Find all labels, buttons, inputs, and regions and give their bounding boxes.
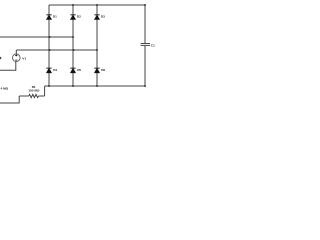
diode D6 bbox=[94, 68, 99, 73]
wire net at y=37 bbox=[0, 36, 73, 38]
junction net50 B bbox=[73, 49, 75, 51]
svg-text:D4: D4 bbox=[53, 68, 57, 72]
resistor R1 label bbox=[28, 85, 40, 92]
wire column B (x=73) bbox=[72, 5, 74, 86]
junction top rail B bbox=[72, 4, 74, 6]
svg-text:D1: D1 bbox=[53, 15, 57, 19]
svg-text:D5: D5 bbox=[77, 68, 81, 72]
svg-text:D2: D2 bbox=[77, 15, 81, 19]
wire left return bbox=[0, 96, 19, 103]
junction bottom rail B bbox=[72, 85, 74, 87]
wire column C (x=97) bbox=[96, 5, 98, 86]
clipped label fragment near V1 at left edge bbox=[0, 57, 1, 59]
wire rail to resistor bbox=[44, 86, 46, 96]
wire column A (x=49) bbox=[48, 5, 50, 86]
wire V1 bottom lead bbox=[0, 62, 16, 71]
diode D4 bbox=[46, 68, 51, 73]
wire top rail bbox=[49, 4, 145, 6]
junction net50 A bbox=[49, 49, 51, 51]
svg-text:100 MΩ: 100 MΩ bbox=[28, 88, 40, 92]
svg-text:D3: D3 bbox=[101, 15, 105, 19]
voltage source V1 bbox=[12, 54, 20, 62]
svg-text:C1: C1 bbox=[151, 43, 155, 47]
junction net37 A bbox=[49, 36, 51, 38]
diode D1 bbox=[46, 15, 51, 20]
wire capacitor branch (x=145) bbox=[144, 5, 146, 86]
wire net at y=50 bbox=[16, 49, 97, 51]
junction top rail cap bbox=[144, 4, 146, 6]
wire resistor right lead bbox=[39, 95, 45, 97]
capacitor C1 bbox=[141, 44, 150, 46]
wire V1 top lead bbox=[15, 50, 17, 54]
diode D2 bbox=[70, 15, 75, 20]
junction bottom rail A bbox=[48, 85, 50, 87]
resistor R1 bbox=[29, 94, 39, 97]
junction bottom rail C bbox=[96, 85, 98, 87]
svg-text:V1: V1 bbox=[22, 56, 26, 60]
junction net50 C bbox=[96, 49, 98, 51]
junction top rail C bbox=[96, 4, 98, 6]
diode D5 bbox=[70, 68, 75, 73]
wire resistor left lead bbox=[19, 95, 29, 97]
svg-text:D6: D6 bbox=[101, 68, 105, 72]
wire bottom rail (y=86) bbox=[45, 85, 145, 87]
junction net37 B bbox=[72, 36, 74, 38]
junction bottom rail cap bbox=[144, 85, 146, 87]
svg-text:4 MΩ: 4 MΩ bbox=[1, 86, 9, 90]
diode D3 bbox=[94, 15, 99, 20]
